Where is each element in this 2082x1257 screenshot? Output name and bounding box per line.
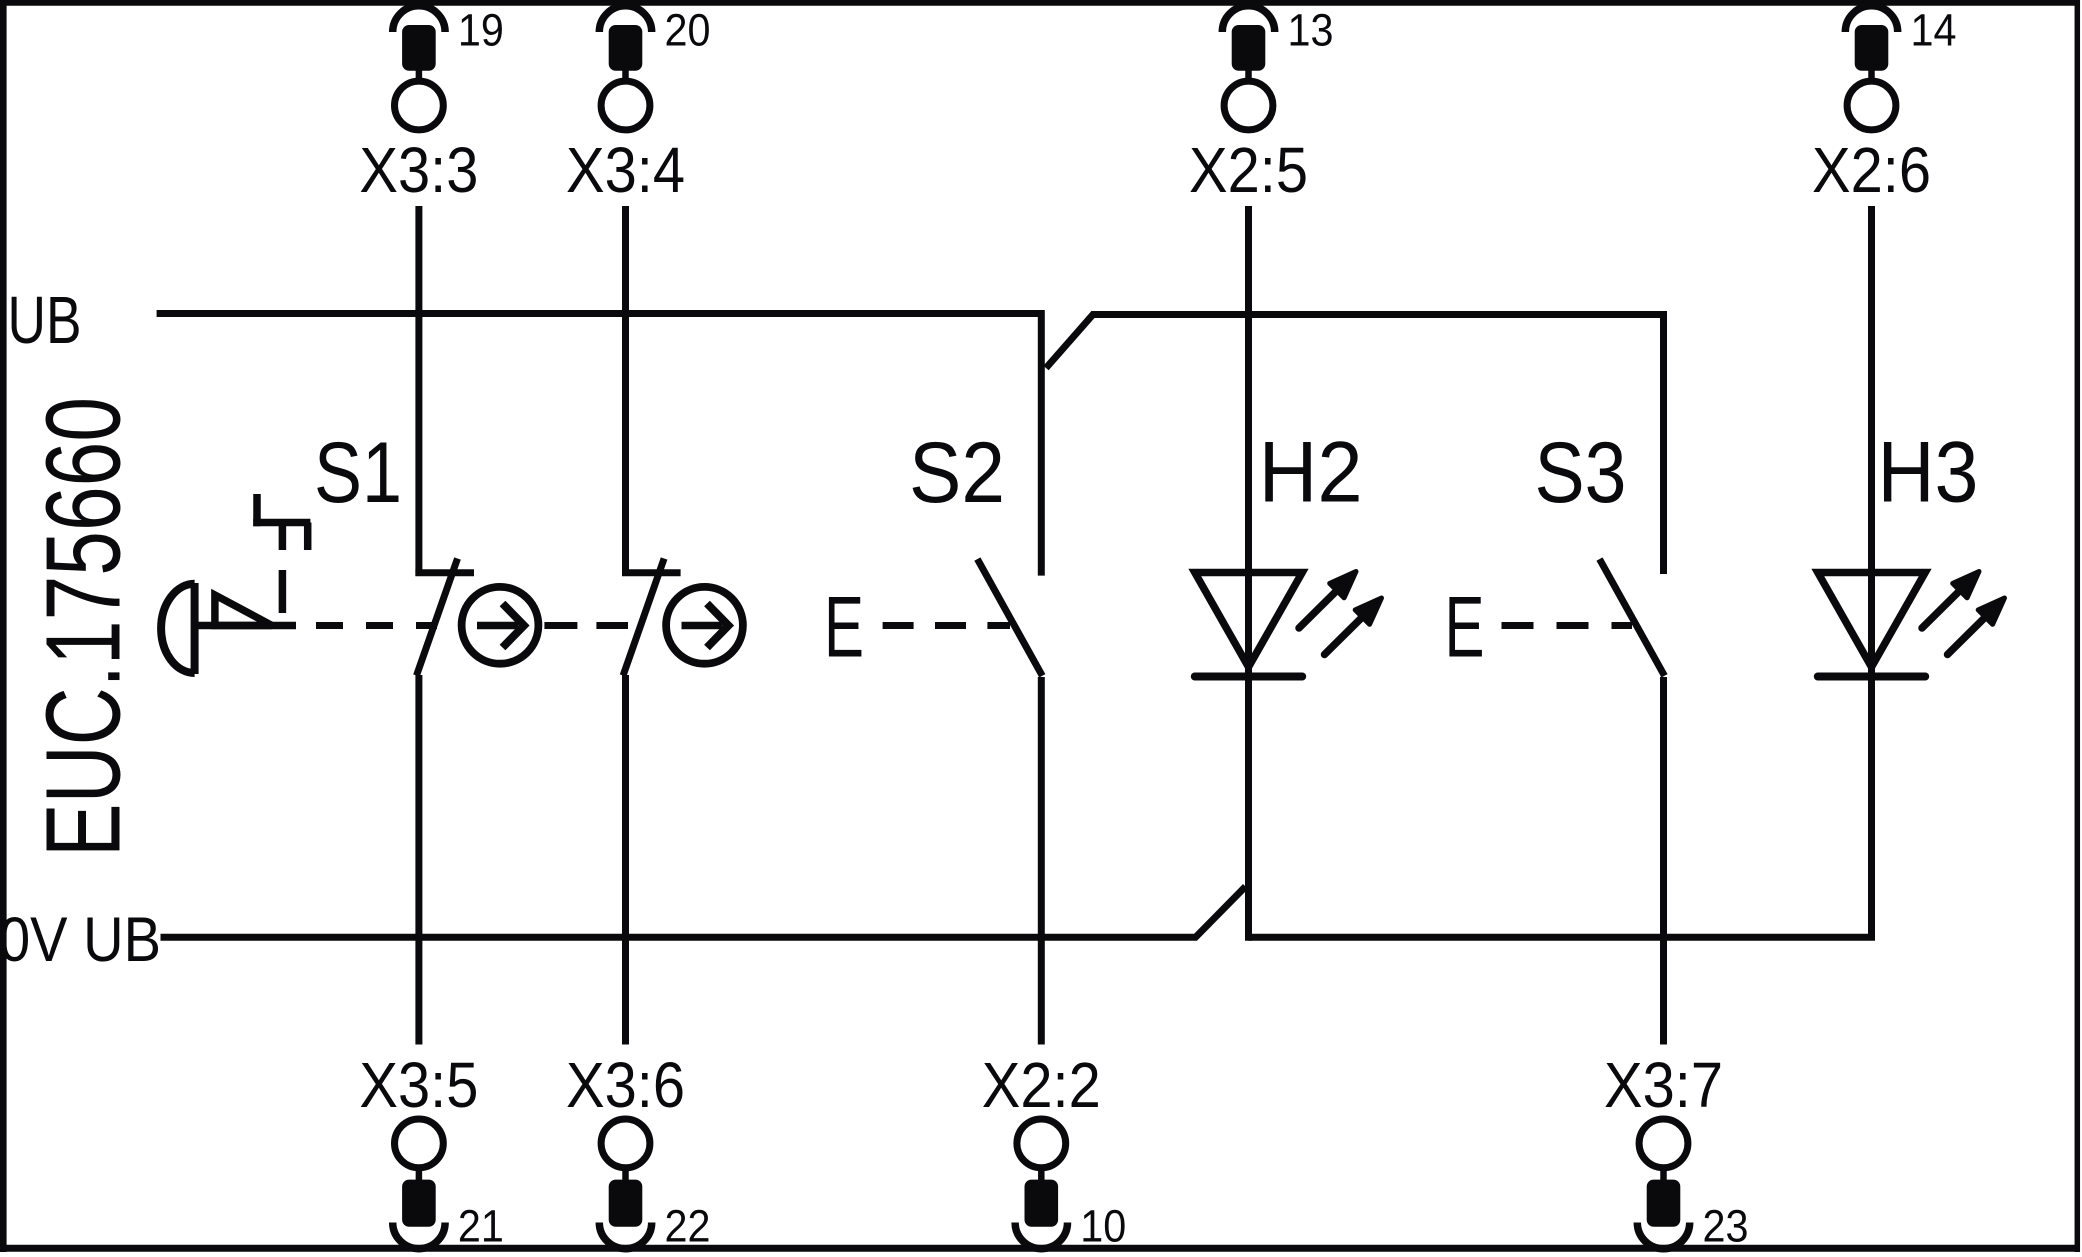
svg-text:0V UB: 0V UB — [0, 905, 161, 975]
svg-text:X3:6: X3:6 — [566, 1049, 685, 1121]
svg-text:S3: S3 — [1535, 425, 1627, 521]
svg-text:S1: S1 — [314, 425, 402, 521]
svg-text:14: 14 — [1911, 5, 1957, 56]
svg-text:H2: H2 — [1259, 425, 1363, 521]
svg-text:21: 21 — [458, 1200, 504, 1251]
svg-text:10: 10 — [1080, 1200, 1126, 1251]
svg-text:23: 23 — [1703, 1200, 1749, 1251]
svg-text:X2:5: X2:5 — [1189, 134, 1308, 206]
svg-text:E: E — [824, 580, 864, 676]
svg-text:S2: S2 — [909, 425, 1005, 521]
svg-text:EUC.175660: EUC.175660 — [24, 397, 142, 857]
svg-text:X3:4: X3:4 — [566, 134, 685, 206]
svg-text:X2:2: X2:2 — [982, 1049, 1101, 1121]
svg-text:H3: H3 — [1878, 425, 1979, 521]
svg-text:X3:7: X3:7 — [1604, 1049, 1723, 1121]
svg-text:22: 22 — [665, 1200, 711, 1251]
svg-text:19: 19 — [458, 5, 504, 56]
svg-text:E: E — [1445, 580, 1485, 676]
svg-text:20: 20 — [665, 5, 711, 56]
svg-text:X3:5: X3:5 — [359, 1049, 478, 1121]
svg-text:13: 13 — [1288, 5, 1334, 56]
svg-text:X3:3: X3:3 — [359, 134, 478, 206]
svg-text:UB: UB — [8, 283, 82, 358]
svg-text:X2:6: X2:6 — [1812, 134, 1931, 206]
